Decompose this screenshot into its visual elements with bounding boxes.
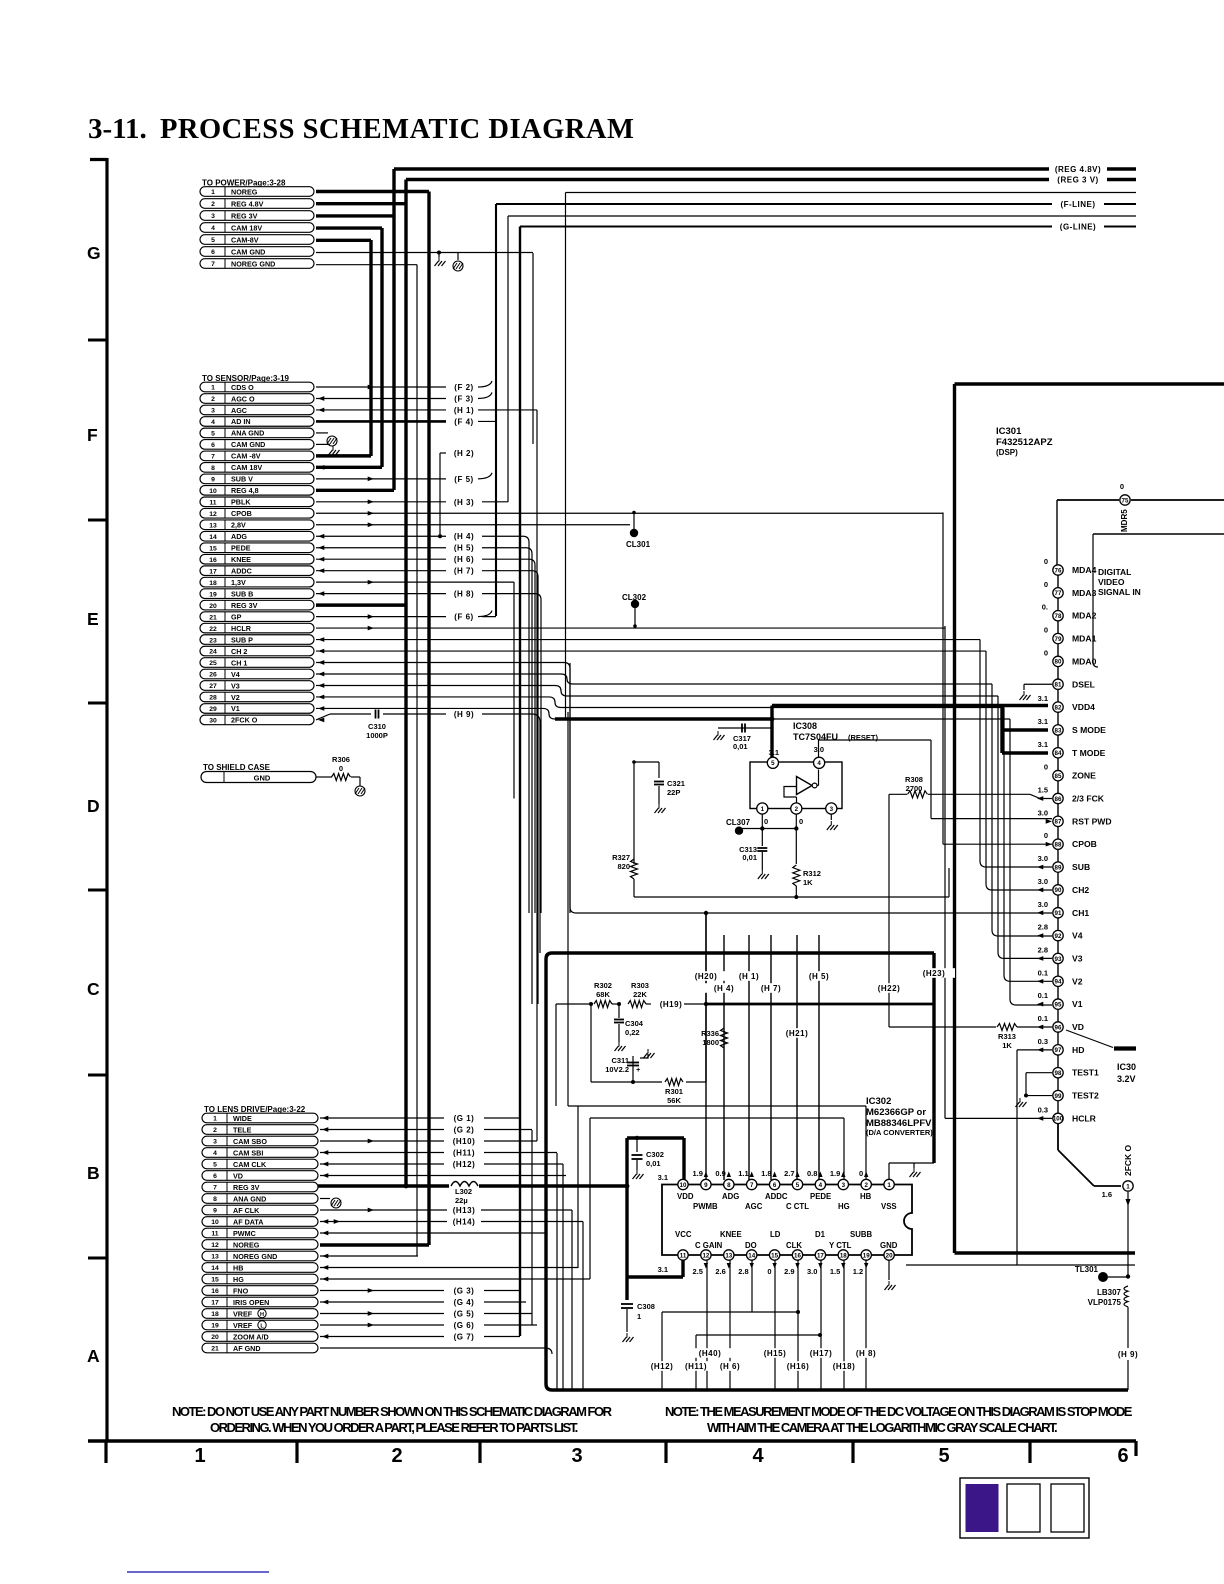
svg-text:0: 0: [1044, 648, 1048, 657]
svg-text:(H 5): (H 5): [454, 544, 474, 553]
svg-text:NOTE: DO NOT USE ANY PART NUM: NOTE: DO NOT USE ANY PART NUMBER SHOWN O…: [172, 1404, 613, 1419]
svg-text:96: 96: [1055, 1024, 1062, 1031]
svg-text:DO: DO: [745, 1241, 757, 1250]
svg-text:REG 3V: REG 3V: [231, 211, 258, 220]
svg-text:89: 89: [1055, 864, 1062, 871]
svg-text:14: 14: [209, 534, 217, 541]
svg-text:9: 9: [211, 477, 215, 484]
svg-text:3-11.: 3-11.: [88, 113, 147, 145]
svg-text:1: 1: [194, 1445, 205, 1467]
svg-text:20: 20: [886, 1252, 893, 1259]
svg-text:LB307: LB307: [1097, 1288, 1122, 1297]
svg-text:PEDE: PEDE: [810, 1192, 831, 1201]
svg-text:7: 7: [750, 1182, 754, 1189]
svg-text:VD: VD: [1072, 1022, 1084, 1032]
svg-text:V4: V4: [1072, 931, 1083, 941]
svg-text:3.0: 3.0: [1038, 808, 1048, 817]
svg-text:WITH AIM THE CAMERA AT THE LOG: WITH AIM THE CAMERA AT THE LOGARITHMIC G…: [707, 1420, 1057, 1435]
svg-text:(H40): (H40): [699, 1349, 722, 1358]
svg-text:0.9: 0.9: [715, 1169, 725, 1178]
svg-text:(H 3): (H 3): [454, 498, 474, 507]
svg-text:(H12): (H12): [651, 1362, 674, 1371]
svg-text:3.1: 3.1: [658, 1173, 668, 1182]
svg-text:(REG 4.8V): (REG 4.8V): [1055, 165, 1101, 174]
svg-text:PBLK: PBLK: [231, 498, 251, 507]
svg-text:(H 9): (H 9): [454, 710, 474, 719]
svg-text:(H 9): (H 9): [1118, 1350, 1138, 1359]
svg-text:MDR5: MDR5: [1120, 509, 1129, 532]
svg-text:3.1: 3.1: [769, 748, 779, 757]
svg-text:(H 7): (H 7): [454, 567, 474, 576]
svg-text:VCC: VCC: [675, 1230, 692, 1239]
svg-text:TEST1: TEST1: [1072, 1068, 1099, 1078]
svg-text:(H11): (H11): [685, 1362, 707, 1371]
svg-text:(F 6): (F 6): [454, 613, 473, 622]
svg-text:NOTE: THE MEASUREMENT MODE OF: NOTE: THE MEASUREMENT MODE OF THE DC VOL…: [665, 1404, 1133, 1419]
svg-text:86: 86: [1055, 796, 1062, 803]
svg-text:17: 17: [211, 1300, 219, 1307]
svg-text:V2: V2: [231, 693, 240, 702]
svg-text:CDS O: CDS O: [231, 383, 254, 392]
svg-text:68K: 68K: [596, 990, 610, 999]
svg-text:(H 5): (H 5): [809, 972, 829, 981]
svg-text:DSEL: DSEL: [1072, 679, 1095, 689]
svg-text:3: 3: [842, 1182, 846, 1189]
svg-text:(F 5): (F 5): [454, 475, 473, 484]
svg-text:T MODE: T MODE: [1072, 748, 1106, 758]
svg-text:REG 3V: REG 3V: [231, 601, 258, 610]
svg-text:3.0: 3.0: [807, 1267, 817, 1276]
svg-text:ADG: ADG: [722, 1192, 739, 1201]
svg-text:0.1: 0.1: [1038, 1014, 1048, 1023]
svg-text:0: 0: [799, 817, 803, 826]
svg-text:CPOB: CPOB: [1072, 839, 1097, 849]
svg-text:0: 0: [767, 1267, 771, 1276]
svg-text:87: 87: [1055, 819, 1062, 826]
svg-text:9: 9: [213, 1208, 217, 1215]
svg-text:3: 3: [830, 806, 834, 813]
svg-text:5: 5: [213, 1162, 217, 1169]
svg-text:4: 4: [213, 1150, 217, 1157]
svg-text:CH 1: CH 1: [231, 658, 247, 667]
svg-text:NOREG GND: NOREG GND: [231, 259, 275, 268]
svg-text:HB: HB: [860, 1192, 872, 1201]
svg-text:VDD: VDD: [677, 1192, 694, 1201]
svg-text:HCLR: HCLR: [1072, 1113, 1097, 1123]
svg-text:0.1: 0.1: [1038, 991, 1048, 1000]
svg-text:(F-LINE): (F-LINE): [1060, 200, 1095, 209]
svg-text:(G-LINE): (G-LINE): [1060, 223, 1096, 232]
svg-text:AF CLK: AF CLK: [233, 1206, 260, 1215]
svg-text:0: 0: [859, 1169, 863, 1178]
svg-text:IC308: IC308: [793, 721, 817, 731]
svg-text:TELE: TELE: [233, 1125, 252, 1134]
svg-text:6: 6: [211, 442, 215, 449]
svg-text:6: 6: [213, 1173, 217, 1180]
svg-text:0.: 0.: [1042, 603, 1048, 612]
svg-text:2.6: 2.6: [715, 1267, 725, 1276]
svg-text:VIDEO: VIDEO: [1098, 577, 1125, 587]
svg-text:3: 3: [571, 1445, 582, 1467]
svg-text:REG 3V: REG 3V: [233, 1183, 260, 1192]
svg-text:2.5: 2.5: [692, 1267, 702, 1276]
svg-text:2/3 FCK: 2/3 FCK: [1072, 794, 1105, 804]
svg-text:IC30: IC30: [1117, 1062, 1136, 1072]
svg-text:(G 5): (G 5): [454, 1310, 475, 1319]
svg-text:(G 4): (G 4): [454, 1298, 475, 1307]
svg-text:V1: V1: [231, 704, 240, 713]
svg-text:(H 8): (H 8): [856, 1349, 876, 1358]
svg-text:A: A: [87, 1346, 100, 1366]
svg-text:16: 16: [209, 557, 217, 564]
svg-text:V3: V3: [231, 681, 240, 690]
svg-text:85: 85: [1055, 773, 1062, 780]
svg-text:7: 7: [211, 454, 215, 461]
svg-text:3.0: 3.0: [1038, 877, 1048, 886]
svg-text:V2: V2: [1072, 976, 1083, 986]
svg-text:ANA GND: ANA GND: [231, 429, 264, 438]
svg-text:GND: GND: [254, 774, 271, 783]
svg-text:C GAIN: C GAIN: [695, 1241, 723, 1250]
svg-text:11: 11: [680, 1252, 687, 1259]
svg-text:1K: 1K: [803, 878, 813, 887]
svg-text:SUB P: SUB P: [231, 635, 253, 644]
svg-text:TL301: TL301: [1075, 1265, 1099, 1274]
svg-text:TO SHIELD CASE: TO SHIELD CASE: [203, 763, 271, 772]
svg-text:C CTL: C CTL: [786, 1202, 809, 1211]
svg-text:6: 6: [773, 1182, 777, 1189]
svg-text:22µ: 22µ: [455, 1196, 468, 1205]
svg-text:MDA4: MDA4: [1072, 565, 1097, 575]
svg-text:1.2: 1.2: [853, 1267, 863, 1276]
svg-text:1.1: 1.1: [738, 1169, 748, 1178]
svg-text:1.9: 1.9: [692, 1169, 702, 1178]
svg-text:7: 7: [213, 1185, 217, 1192]
svg-text:RST PWD: RST PWD: [1072, 816, 1112, 826]
svg-text:(H23): (H23): [923, 969, 946, 978]
svg-text:R306: R306: [332, 755, 350, 764]
svg-text:9: 9: [704, 1182, 708, 1189]
svg-text:1: 1: [211, 189, 215, 196]
svg-text:(H 1): (H 1): [454, 406, 474, 415]
svg-text:R327: R327: [612, 853, 630, 862]
svg-text:26: 26: [209, 672, 217, 679]
svg-text:CAM 18V: CAM 18V: [231, 463, 262, 472]
svg-text:22: 22: [209, 626, 217, 633]
svg-text:FNO: FNO: [233, 1286, 249, 1295]
svg-text:95: 95: [1055, 1001, 1062, 1008]
svg-text:HD: HD: [1072, 1045, 1084, 1055]
svg-text:HCLR: HCLR: [231, 624, 252, 633]
svg-text:R308: R308: [905, 775, 923, 784]
svg-text:REG 4,8: REG 4,8: [231, 486, 259, 495]
svg-text:VD: VD: [233, 1171, 243, 1180]
svg-text:2.7: 2.7: [784, 1169, 794, 1178]
svg-text:(H13): (H13): [453, 1206, 476, 1215]
svg-text:23: 23: [209, 637, 217, 644]
svg-text:(DSP): (DSP): [996, 448, 1018, 457]
svg-text:27: 27: [209, 683, 217, 690]
svg-text:79: 79: [1055, 636, 1062, 643]
svg-text:84: 84: [1055, 750, 1062, 757]
svg-text:12: 12: [209, 511, 217, 518]
svg-text:78: 78: [1055, 613, 1062, 620]
svg-text:KNEE: KNEE: [231, 555, 251, 564]
svg-text:0.3: 0.3: [1038, 1105, 1048, 1114]
svg-text:93: 93: [1055, 956, 1062, 963]
svg-text:CH2: CH2: [1072, 885, 1089, 895]
svg-text:HG: HG: [233, 1275, 244, 1284]
svg-text:SIGNAL IN: SIGNAL IN: [1098, 587, 1141, 597]
svg-text:75: 75: [1122, 497, 1129, 504]
svg-text:10: 10: [680, 1182, 687, 1189]
svg-text:ANA GND: ANA GND: [233, 1194, 266, 1203]
svg-text:1000P: 1000P: [366, 731, 388, 740]
svg-text:2FCK O: 2FCK O: [1123, 1144, 1133, 1176]
svg-text:(G 6): (G 6): [454, 1321, 475, 1330]
svg-text:12: 12: [702, 1252, 709, 1259]
svg-text:F432512APZ: F432512APZ: [996, 437, 1053, 448]
svg-text:1.9: 1.9: [830, 1169, 840, 1178]
svg-text:(G 2): (G 2): [454, 1126, 475, 1135]
svg-text:(H 4): (H 4): [714, 984, 734, 993]
svg-text:C304: C304: [625, 1019, 644, 1028]
svg-text:CH 2: CH 2: [231, 647, 247, 656]
svg-text:4: 4: [211, 419, 215, 426]
svg-text:30: 30: [209, 718, 217, 725]
svg-text:10: 10: [211, 1219, 219, 1226]
svg-text:14: 14: [748, 1252, 755, 1259]
svg-text:AD IN: AD IN: [231, 417, 251, 426]
svg-text:1: 1: [213, 1116, 217, 1123]
svg-text:0.3: 0.3: [1038, 1037, 1048, 1046]
svg-text:10V2.2: 10V2.2: [605, 1065, 629, 1074]
svg-text:NOREG: NOREG: [231, 187, 258, 196]
svg-text:VDD4: VDD4: [1072, 702, 1095, 712]
svg-text:SUB V: SUB V: [231, 475, 253, 484]
svg-text:2,8V: 2,8V: [231, 521, 246, 530]
svg-text:81: 81: [1055, 682, 1062, 689]
svg-text:1: 1: [1126, 1183, 1130, 1190]
svg-text:GND: GND: [880, 1241, 898, 1250]
svg-text:IRIS OPEN: IRIS OPEN: [233, 1298, 269, 1307]
svg-text:(H10): (H10): [453, 1137, 476, 1146]
svg-text:0: 0: [1044, 626, 1048, 635]
svg-text:6: 6: [211, 249, 215, 256]
svg-text:(H14): (H14): [453, 1218, 476, 1227]
svg-text:4: 4: [211, 225, 215, 232]
svg-text:0,01: 0,01: [733, 742, 748, 751]
svg-text:11: 11: [211, 1231, 218, 1238]
svg-text:15: 15: [771, 1252, 778, 1259]
svg-text:24: 24: [209, 649, 217, 656]
svg-text:(F 3): (F 3): [454, 394, 473, 403]
svg-text:14: 14: [211, 1265, 219, 1272]
svg-text:0: 0: [1044, 580, 1048, 589]
svg-text:3.1: 3.1: [658, 1265, 668, 1274]
svg-text:1800: 1800: [702, 1038, 719, 1047]
svg-text:C302: C302: [646, 1150, 664, 1159]
svg-text:21: 21: [209, 614, 217, 621]
svg-text:820: 820: [617, 862, 630, 871]
svg-text:+: +: [636, 1065, 641, 1074]
svg-text:13: 13: [725, 1252, 732, 1259]
svg-text:H: H: [260, 1312, 264, 1318]
svg-text:18: 18: [211, 1311, 219, 1318]
svg-text:VREF: VREF: [233, 1309, 253, 1318]
svg-text:C308: C308: [637, 1302, 655, 1311]
svg-text:CAM-8V: CAM-8V: [231, 235, 259, 244]
svg-text:F: F: [87, 425, 98, 445]
svg-text:CL307: CL307: [726, 818, 751, 827]
svg-text:VLP0175: VLP0175: [1088, 1298, 1122, 1307]
svg-text:CL302: CL302: [622, 593, 647, 602]
svg-text:1.5: 1.5: [1038, 786, 1048, 795]
svg-text:97: 97: [1055, 1047, 1062, 1054]
svg-text:3: 3: [211, 213, 215, 220]
svg-text:21: 21: [211, 1346, 219, 1353]
svg-text:99: 99: [1055, 1093, 1062, 1100]
svg-text:0: 0: [1044, 763, 1048, 772]
svg-text:56K: 56K: [667, 1096, 681, 1105]
svg-text:0: 0: [1044, 557, 1048, 566]
svg-text:(H 1): (H 1): [739, 972, 759, 981]
svg-text:AGC O: AGC O: [231, 394, 255, 403]
svg-text:0: 0: [764, 817, 768, 826]
svg-text:WIDE: WIDE: [233, 1114, 252, 1123]
svg-text:1,3V: 1,3V: [231, 578, 246, 587]
svg-text:G: G: [87, 243, 101, 263]
svg-text:KNEE: KNEE: [720, 1230, 742, 1239]
svg-text:15: 15: [209, 545, 217, 552]
svg-text:C311: C311: [611, 1056, 629, 1065]
svg-text:0: 0: [1120, 482, 1124, 491]
svg-text:CPOB: CPOB: [231, 509, 252, 518]
svg-text:1: 1: [887, 1182, 891, 1189]
svg-text:4: 4: [817, 760, 821, 767]
svg-text:2: 2: [864, 1182, 868, 1189]
svg-text:2: 2: [211, 201, 215, 208]
svg-text:0.8: 0.8: [807, 1169, 817, 1178]
svg-text:ORDERING. WHEN YOU ORDER A P: ORDERING. WHEN YOU ORDER A PART, PLEASE …: [210, 1420, 578, 1435]
svg-text:CAM SBO: CAM SBO: [233, 1137, 267, 1146]
svg-text:TEST2: TEST2: [1072, 1091, 1099, 1101]
svg-text:(H19): (H19): [660, 1000, 683, 1009]
svg-text:3.2V: 3.2V: [1117, 1074, 1136, 1084]
svg-text:1K: 1K: [1002, 1041, 1012, 1050]
svg-text:ADG: ADG: [231, 532, 247, 541]
svg-text:R301: R301: [665, 1087, 683, 1096]
svg-text:ADDC: ADDC: [231, 566, 252, 575]
svg-text:5: 5: [771, 760, 775, 767]
svg-text:3.1: 3.1: [1038, 717, 1048, 726]
svg-text:(H20): (H20): [695, 972, 718, 981]
svg-text:R303: R303: [631, 981, 649, 990]
svg-text:(G 3): (G 3): [454, 1287, 475, 1296]
svg-text:D1: D1: [815, 1230, 826, 1239]
svg-text:8: 8: [727, 1182, 731, 1189]
svg-text:V3: V3: [1072, 953, 1083, 963]
svg-text:VSS: VSS: [881, 1202, 897, 1211]
svg-text:80: 80: [1055, 659, 1062, 666]
svg-text:CAM 18V: CAM 18V: [231, 223, 262, 232]
svg-text:4: 4: [819, 1182, 823, 1189]
svg-text:AF GND: AF GND: [233, 1344, 261, 1353]
svg-text:100: 100: [1053, 1116, 1064, 1123]
svg-text:C: C: [87, 979, 100, 999]
svg-text:2: 2: [795, 806, 799, 813]
svg-text:2.8: 2.8: [738, 1267, 748, 1276]
svg-text:22K: 22K: [633, 990, 647, 999]
svg-text:77: 77: [1055, 590, 1062, 597]
svg-text:7: 7: [211, 261, 215, 268]
svg-text:MDA1: MDA1: [1072, 634, 1097, 644]
svg-text:NOREG GND: NOREG GND: [233, 1252, 277, 1261]
svg-text:90: 90: [1055, 887, 1062, 894]
svg-text:(F 4): (F 4): [454, 417, 473, 426]
svg-text:3.0: 3.0: [814, 745, 824, 754]
svg-text:LD: LD: [770, 1230, 781, 1239]
svg-text:(H 6): (H 6): [454, 555, 474, 564]
svg-text:0: 0: [339, 764, 343, 773]
svg-text:2: 2: [211, 396, 215, 403]
svg-text:CAM SBI: CAM SBI: [233, 1148, 263, 1157]
svg-text:NOREG: NOREG: [233, 1240, 260, 1249]
svg-text:22P: 22P: [667, 788, 680, 797]
svg-text:(H 7): (H 7): [761, 984, 781, 993]
svg-text:AF DATA: AF DATA: [233, 1217, 263, 1226]
svg-text:CAM GND: CAM GND: [231, 247, 265, 256]
svg-text:8: 8: [213, 1196, 217, 1203]
svg-text:(H22): (H22): [878, 984, 901, 993]
svg-text:29: 29: [209, 706, 217, 713]
svg-text:C321: C321: [667, 779, 685, 788]
svg-text:17: 17: [209, 568, 217, 575]
svg-text:5: 5: [938, 1445, 949, 1467]
svg-text:V4: V4: [231, 670, 240, 679]
svg-text:(H 6): (H 6): [720, 1362, 740, 1371]
svg-text:83: 83: [1055, 727, 1062, 734]
svg-text:0,22: 0,22: [625, 1028, 640, 1037]
svg-text:3.1: 3.1: [1038, 740, 1048, 749]
svg-text:2FCK O: 2FCK O: [231, 716, 258, 725]
svg-text:94: 94: [1055, 979, 1062, 986]
svg-text:19: 19: [209, 591, 217, 598]
svg-text:(H12): (H12): [453, 1160, 476, 1169]
svg-text:3.0: 3.0: [1038, 854, 1048, 863]
svg-text:IC302: IC302: [866, 1096, 891, 1107]
svg-text:(H 4): (H 4): [454, 532, 474, 541]
svg-text:5: 5: [211, 431, 215, 438]
svg-text:76: 76: [1055, 567, 1062, 574]
svg-text:0,01: 0,01: [646, 1159, 661, 1168]
svg-text:5: 5: [796, 1182, 800, 1189]
svg-text:CLK: CLK: [786, 1241, 802, 1250]
svg-text:2: 2: [213, 1127, 217, 1134]
svg-text:SUB: SUB: [1072, 862, 1090, 872]
svg-text:(RESET): (RESET): [848, 733, 879, 742]
svg-text:1.6: 1.6: [1102, 1190, 1112, 1199]
svg-text:ZOOM A/D: ZOOM A/D: [233, 1332, 269, 1341]
svg-text:MDA0: MDA0: [1072, 656, 1097, 666]
svg-text:PWMB: PWMB: [693, 1202, 718, 1211]
svg-text:(G 1): (G 1): [454, 1114, 475, 1123]
svg-text:92: 92: [1055, 933, 1062, 940]
svg-text:28: 28: [209, 695, 217, 702]
svg-text:0,01: 0,01: [742, 853, 757, 862]
svg-text:3: 3: [213, 1139, 217, 1146]
svg-text:25: 25: [209, 660, 217, 667]
